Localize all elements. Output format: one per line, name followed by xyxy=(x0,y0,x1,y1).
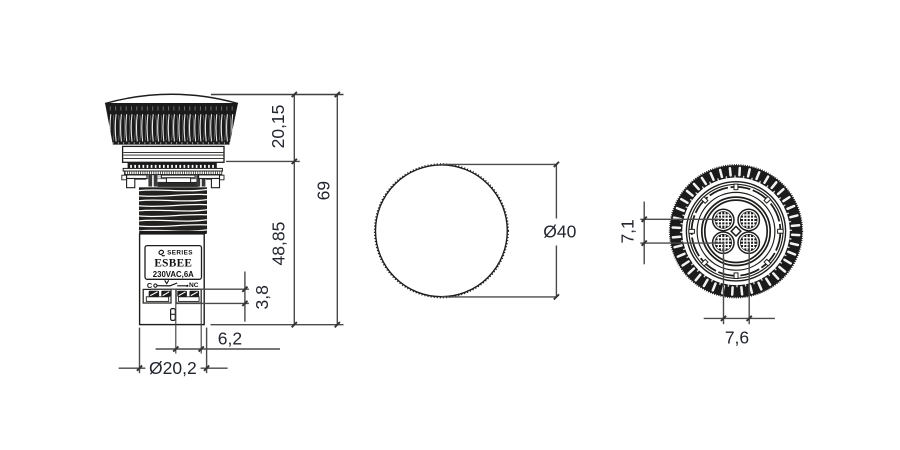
svg-text:ESBEE: ESBEE xyxy=(154,258,192,270)
contact schematic: blade and line xyxy=(157,283,186,286)
terminal screw 1 xyxy=(713,209,734,230)
svg-text:6,2: 6,2 xyxy=(218,328,242,348)
knurled hatch band xyxy=(124,171,221,175)
extension lines 3,8 xyxy=(151,288,249,290)
centre diamond xyxy=(731,226,741,236)
front view: button face circle xyxy=(376,165,508,297)
flange band xyxy=(125,175,222,179)
collar groove lines xyxy=(123,152,223,154)
dimension line dia 20,2 xyxy=(119,367,146,369)
terminal screw 3 xyxy=(713,232,734,253)
head side rib knurling xyxy=(110,114,233,141)
svg-text:69: 69 xyxy=(314,181,334,200)
contact carrier outer ring xyxy=(702,197,770,265)
extension line circle top xyxy=(441,163,556,165)
centre clip flange xyxy=(161,175,195,178)
right mounting post pair xyxy=(196,175,205,187)
flange left protrusion xyxy=(122,175,127,180)
right block screws xyxy=(177,291,199,297)
dimension line 69 xyxy=(336,95,338,325)
outer gear ring xyxy=(676,172,795,291)
flange right protrusion xyxy=(219,175,224,180)
contact carrier inner ring xyxy=(705,200,767,262)
extension line middle (bezel) xyxy=(226,160,300,162)
left terminal block xyxy=(143,289,171,303)
rating label plate xyxy=(145,246,202,280)
terminal screw 2 xyxy=(738,209,759,230)
mushroom head knurled cap xyxy=(105,103,238,145)
threaded bushing xyxy=(139,187,207,232)
segmented ring xyxy=(692,187,781,276)
switch body housing xyxy=(140,234,205,325)
gear ring inner scallop xyxy=(681,176,792,287)
dimension line 7,1 xyxy=(643,202,645,265)
terminal screw 4 xyxy=(738,232,759,253)
dimension line dia 40 xyxy=(555,164,557,218)
dimension line 20,15 / 48,85 xyxy=(293,95,295,325)
svg-text:7,6: 7,6 xyxy=(725,327,749,347)
svg-text:48,85: 48,85 xyxy=(269,222,289,266)
dimension line 7,6 xyxy=(704,317,775,319)
toothed lock ring xyxy=(128,162,217,168)
right terminal block xyxy=(176,289,201,303)
dimension line 6,2 xyxy=(156,348,280,350)
mounting nut band xyxy=(123,168,222,171)
thread end band xyxy=(139,231,206,234)
inner circle r49 xyxy=(686,182,785,281)
svg-text:20,15: 20,15 xyxy=(268,105,288,149)
terminal drop line right xyxy=(200,289,202,353)
plunger arrow xyxy=(165,280,169,283)
terminal drop line left xyxy=(175,289,177,353)
head top band knurl ticks xyxy=(110,106,233,110)
dimension line 3,8 xyxy=(244,272,246,322)
extension line circle bottom xyxy=(441,296,556,298)
serrated rim xyxy=(375,164,509,298)
left mounting post pair xyxy=(148,175,157,187)
inner circle r47 xyxy=(689,184,783,278)
left view: side elevation of E-stop push button xyxy=(105,94,238,324)
logo squiggle xyxy=(159,250,165,256)
segmented ring tabs xyxy=(689,184,783,278)
svg-text:Ø40: Ø40 xyxy=(543,222,576,242)
svg-text:230VAC,6A: 230VAC,6A xyxy=(153,270,194,279)
outer serrated edge xyxy=(670,166,801,297)
svg-text:Ø20,2: Ø20,2 xyxy=(149,358,197,378)
svg-text:C: C xyxy=(147,281,153,290)
left spring clip ear xyxy=(127,175,147,179)
head bottom fringe xyxy=(113,142,230,144)
extension line top (head apex) xyxy=(211,94,344,96)
extension line bottom (body) xyxy=(211,324,344,326)
svg-text:SERIES: SERIES xyxy=(167,249,193,256)
svg-text:7,1: 7,1 xyxy=(617,219,637,243)
extension lines 7,6 xyxy=(723,243,725,325)
mushroom head dome top line xyxy=(105,94,238,103)
extension lines 7,1 xyxy=(640,218,723,220)
inner circle r39 xyxy=(697,192,775,270)
gear ring slots xyxy=(673,168,800,295)
left block screws xyxy=(149,291,171,297)
bottom clip xyxy=(171,309,176,321)
right spring clip ear xyxy=(199,175,220,179)
rear view: knurled ring assembly xyxy=(670,165,803,298)
clip zone shadow xyxy=(146,179,206,187)
svg-text:NC: NC xyxy=(189,282,199,289)
svg-text:3,8: 3,8 xyxy=(252,285,272,309)
extension lines dia 20,2 xyxy=(139,328,141,374)
collar ring xyxy=(123,146,224,162)
